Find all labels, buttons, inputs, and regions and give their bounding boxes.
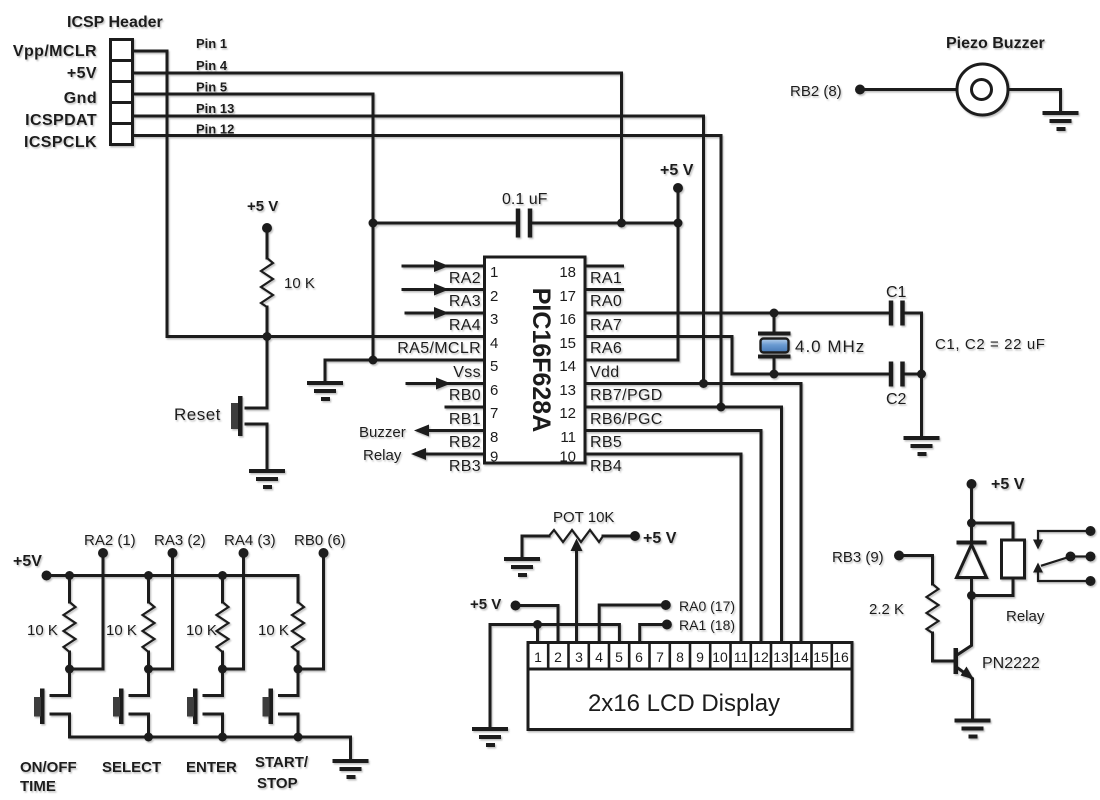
svg-text:STOP: STOP (257, 775, 298, 792)
svg-text:2: 2 (554, 649, 562, 665)
arrowhead emitter (961, 667, 975, 680)
wire RA1 to LCD pin6 (640, 625, 667, 643)
svg-text:ICSPDAT: ICSPDAT (25, 112, 97, 129)
crystal Y1 stub top (773, 313, 776, 333)
terminal dot +5V rail (42, 571, 52, 581)
ground (LCD) (472, 729, 508, 745)
wire RB0 input stub pin6 (407, 382, 485, 385)
junction dot rail R2 (144, 571, 153, 580)
relay pole arm (1042, 557, 1071, 566)
relay contact NO terminal dot (1086, 576, 1096, 586)
buzzer BZ1 body (957, 64, 1008, 115)
ground (buttons) (333, 761, 369, 777)
svg-text:Relay: Relay (1006, 608, 1045, 625)
svg-text:17: 17 (559, 288, 576, 305)
LCD module main body (528, 669, 852, 730)
ground (oscillator caps) (904, 438, 940, 454)
svg-text:11: 11 (560, 429, 576, 446)
pushbutton Reset bottom contact (246, 423, 267, 426)
resistor R1 10K pullup (261, 258, 273, 307)
svg-text:PN2222: PN2222 (982, 655, 1040, 672)
wire RA1 stub pin18 (585, 265, 623, 268)
svg-text:RA4: RA4 (449, 317, 481, 334)
pushbutton SW4 START/STOP (263, 669, 299, 737)
svg-text:+5V: +5V (13, 553, 42, 570)
connector J1 ICSP header (111, 40, 133, 145)
relay K1 coil body (1002, 540, 1025, 578)
terminal dot RA1 (662, 620, 672, 630)
junction dot cap left / ICSP gnd vertical (369, 219, 378, 228)
svg-text:10 K: 10 K (186, 622, 217, 639)
svg-text:4.0 MHz: 4.0 MHz (795, 337, 865, 356)
junction terminal dot +5V top (673, 183, 683, 193)
pushbutton SW3 ENTER (187, 669, 223, 737)
wire RB5 pin11 to LCD pin12 (585, 431, 761, 643)
pin numbers right column 18-10 (559, 264, 576, 466)
wire RA3 input stub pin2 (403, 288, 485, 291)
wire ICSP Pin 12 to RB6/PGC (133, 136, 722, 408)
svg-text:9: 9 (490, 449, 498, 466)
label START/STOP (255, 754, 309, 792)
arrowhead into pin3 (434, 307, 449, 319)
wire junction to LCD pin1 (536, 625, 539, 643)
wire RA4 input stub pin3 (406, 312, 485, 315)
wire RA6 pin15 to crystal/C2 (585, 337, 889, 375)
wire +5V to resistor R1 (266, 228, 269, 258)
svg-text:RA7: RA7 (590, 317, 622, 334)
terminal dot +5V pullup (262, 223, 272, 233)
transistor Q1 base bar (954, 648, 959, 674)
relay contact NC wire with arrow (1033, 531, 1091, 550)
svg-text:RA2: RA2 (449, 270, 481, 287)
svg-text:+5 V: +5 V (247, 198, 278, 215)
wire pot right to +5V (603, 535, 634, 538)
svg-text:POT 10K: POT 10K (553, 509, 614, 526)
svg-text:3: 3 (490, 311, 498, 328)
wire +5V to diode/coil top (970, 484, 973, 523)
relay contact NC terminal dot (1086, 526, 1096, 536)
wire to RA4 terminal (223, 553, 244, 669)
svg-text:15: 15 (813, 649, 829, 665)
svg-text:+5 V: +5 V (470, 596, 501, 613)
junction dot SW4 common (294, 733, 303, 742)
svg-text:12: 12 (559, 405, 576, 422)
junction dot RB6/ICSP (717, 403, 726, 412)
capacitor C1 plates (891, 301, 903, 326)
svg-text:Buzzer: Buzzer (359, 424, 406, 441)
capacitor C (0.1 uF) wire right (532, 222, 678, 225)
wire to RB0 terminal (298, 553, 324, 669)
LCD pin header boxes 1-16 (528, 643, 852, 670)
junction dot R5 bottom (294, 665, 303, 674)
svg-text:3: 3 (575, 649, 583, 665)
pot wiper arrow to LCD pin3 (575, 549, 578, 643)
svg-text:RA0: RA0 (590, 293, 622, 310)
svg-text:PIC16F628A: PIC16F628A (527, 288, 555, 433)
junction dot R2 bottom (65, 665, 74, 674)
junction dot RB7/ICSP (699, 379, 708, 388)
terminal dot RA3 (168, 548, 178, 558)
relay pole terminal dots (1066, 552, 1096, 562)
svg-text:Pin 12: Pin 12 (196, 122, 234, 137)
wire Vdd to chip pin 14 (585, 359, 678, 362)
svg-text:RA1 (18): RA1 (18) (679, 617, 735, 633)
label ON/OFF TIME (20, 759, 77, 795)
wire RB2 buzzer output pin8 (429, 429, 485, 432)
svg-text:8: 8 (490, 429, 498, 446)
svg-text:13: 13 (559, 382, 576, 399)
svg-text:RA6: RA6 (590, 340, 622, 357)
wire RA7 pin16 to C1 (585, 312, 889, 315)
terminal dot +5V relay (967, 479, 977, 489)
svg-text:RB4: RB4 (590, 458, 622, 475)
svg-text:16: 16 (559, 311, 576, 328)
svg-text:RA3: RA3 (449, 293, 481, 310)
junction dot SW3 common (218, 733, 227, 742)
svg-text:6: 6 (490, 382, 498, 399)
arrowhead into pin2 (434, 284, 449, 296)
svg-text:14: 14 (559, 358, 576, 375)
ground (emitter) (955, 721, 991, 737)
svg-text:RB3: RB3 (449, 458, 481, 475)
pushbutton Reset actuator bar (238, 396, 243, 436)
crystal Y1 top plate (758, 332, 791, 336)
svg-text:+5 V: +5 V (660, 162, 694, 179)
wire RA0 stub pin17 (585, 288, 623, 291)
svg-text:RB2 (8): RB2 (8) (790, 83, 842, 100)
junction dot cap at Pin4 vertical (617, 219, 626, 228)
svg-text:RA3 (2): RA3 (2) (154, 532, 206, 549)
capacitor C2 plates (891, 362, 903, 387)
terminal dot RA0 (661, 600, 671, 610)
pin numbers left column 1-9 (490, 264, 498, 466)
wire reset switch to ground (266, 424, 269, 470)
svg-text:8: 8 (676, 649, 684, 665)
LCD pin numbers 1-16 (534, 649, 849, 665)
resistor R6 2.2K (927, 584, 939, 633)
wire RB1 stub pin7 (446, 406, 485, 409)
svg-text:SELECT: SELECT (102, 759, 161, 776)
terminal dot +5V LCD (511, 601, 521, 611)
terminal dot RB2 (855, 85, 865, 95)
relay K1 coil wires (972, 523, 1014, 540)
resistor R4 10K (ENTER) (217, 576, 229, 670)
wire buttons common to ground (70, 737, 351, 760)
junction dot C2/vertical (917, 370, 926, 379)
svg-text:RA0 (17): RA0 (17) (679, 598, 735, 614)
junction dot SW2 common (144, 733, 153, 742)
ground (pot) (504, 559, 540, 575)
wire pot left to ground (522, 536, 549, 558)
wire LCD ground net (pins 1 and 5) (490, 625, 619, 729)
resistor R5 10K (START/STOP) (292, 576, 304, 670)
ground (reset) (249, 471, 285, 487)
svg-text:TIME: TIME (20, 778, 56, 795)
svg-text:Relay: Relay (363, 447, 402, 464)
resistor R2 10K (ON/OFF) (64, 576, 76, 670)
svg-text:RB6/PGC: RB6/PGC (590, 411, 663, 428)
junction dot Vss / ICSP gnd (369, 356, 378, 365)
crystal Y1 body (blue) (761, 339, 789, 353)
svg-text:7: 7 (656, 649, 664, 665)
svg-text:RB3 (9): RB3 (9) (832, 549, 884, 566)
potentiometer POT 10K body (549, 530, 603, 542)
svg-text:RB7/PGD: RB7/PGD (590, 387, 663, 404)
relay contact NO wire with arrow (1033, 563, 1091, 582)
ground (Vss) (307, 383, 343, 399)
diode D1 body (957, 523, 987, 596)
wire +5V down to Vdd (677, 188, 680, 360)
wire R1 to MCLR line (266, 307, 269, 337)
wire RA2 input stub pin1 (403, 265, 485, 268)
wire ICSP Pin 1 to RA5/MCLR (133, 51, 168, 337)
svg-text:Vpp/MCLR: Vpp/MCLR (13, 43, 97, 60)
svg-text:+5 V: +5 V (991, 476, 1025, 493)
junction dot rail R1 (65, 571, 74, 580)
svg-text:RA2 (1): RA2 (1) (84, 532, 136, 549)
wire RA5/MCLR pin4 (167, 335, 485, 338)
op-amp/IC U1 PIC16F628A body (485, 257, 586, 463)
svg-text:10 K: 10 K (106, 622, 137, 639)
junction dot crystal bottom (770, 370, 779, 379)
svg-text:RB0 (6): RB0 (6) (294, 532, 346, 549)
svg-text:14: 14 (793, 649, 809, 665)
svg-text:13: 13 (773, 649, 789, 665)
junction dot rail R3 (218, 571, 227, 580)
svg-text:RB2: RB2 (449, 434, 481, 451)
arrowhead wiper (571, 539, 583, 552)
pushbutton SW1 ON/OFF TIME (34, 669, 70, 737)
svg-text:Vss: Vss (453, 364, 481, 381)
junction dot coil bottom / collector (967, 591, 976, 600)
svg-text:1: 1 (534, 649, 542, 665)
svg-text:5: 5 (490, 358, 498, 375)
wire ICSP Pin 13 to RB7/PGD (133, 116, 704, 384)
capacitor C (0.1 uF) wire left (373, 222, 516, 225)
diode D1 cathode bar (957, 541, 987, 545)
capacitor C (0.1 uF) plates (518, 209, 530, 238)
svg-text:Piezo Buzzer: Piezo Buzzer (946, 35, 1045, 52)
wire buzzer to ground (1008, 90, 1061, 113)
svg-text:9: 9 (696, 649, 704, 665)
terminal dot RA2 (98, 548, 108, 558)
pushbutton SW2 SELECT (113, 669, 149, 737)
svg-text:10 K: 10 K (27, 622, 58, 639)
wire +5V rail (47, 574, 299, 577)
svg-text:11: 11 (734, 649, 749, 665)
wire RB3 relay output pin9 (426, 453, 485, 456)
svg-text:1: 1 (490, 264, 498, 281)
ground (buzzer) (1043, 113, 1079, 129)
junction dot R1/MCLR (263, 332, 272, 341)
svg-text:C1: C1 (886, 284, 907, 301)
svg-text:ICSPCLK: ICSPCLK (24, 134, 97, 151)
wire Vss pin5 to ground (325, 360, 485, 382)
wire ICSP Pin 4 (+5V) (133, 73, 622, 223)
junction dot coil top (967, 519, 976, 528)
svg-text:0.1 uF: 0.1 uF (502, 191, 548, 208)
transistor Q1 emitter lead (957, 668, 973, 720)
svg-text:Pin 4: Pin 4 (196, 58, 228, 73)
junction dot R3 bottom (144, 665, 153, 674)
wire RB4 pin10 to LCD pin11 (585, 454, 741, 643)
svg-text:10 K: 10 K (258, 622, 289, 639)
wire MCLR junction down to reset switch (266, 337, 269, 409)
terminal dot RB3 (894, 551, 904, 561)
wire RB6/PGC pin12 to LCD pin13 (585, 407, 782, 643)
wire to RA3 terminal (149, 553, 173, 669)
arrowhead out pin8 (414, 425, 429, 437)
wire +5V to LCD pin2 (516, 606, 559, 643)
svg-text:16: 16 (833, 649, 849, 665)
wire RA0 to LCD pin4 (599, 605, 666, 643)
wire ICSP Pin 5 (Gnd) to Vss (133, 94, 374, 360)
wire R6 to transistor base (933, 633, 954, 661)
transistor Q1 collector lead (957, 596, 972, 656)
wire vertical to ground (920, 374, 923, 437)
pushbutton Reset cap (231, 403, 238, 429)
svg-text:ON/OFF: ON/OFF (20, 759, 77, 776)
svg-text:4: 4 (490, 335, 498, 352)
svg-text:10 K: 10 K (284, 275, 315, 292)
svg-text:+5V: +5V (67, 65, 97, 82)
svg-text:Pin 13: Pin 13 (196, 101, 234, 116)
wire RB3 to base resistor (899, 556, 933, 585)
svg-text:ENTER: ENTER (186, 759, 237, 776)
relay K1 coil bottom wire (972, 578, 1014, 596)
svg-text:18: 18 (559, 264, 576, 281)
svg-text:2x16 LCD Display: 2x16 LCD Display (588, 690, 780, 717)
svg-text:2.2 K: 2.2 K (869, 601, 904, 618)
arrowhead into pin1 (434, 260, 449, 272)
svg-text:RB0: RB0 (449, 387, 481, 404)
svg-text:Vdd: Vdd (590, 364, 620, 381)
terminal dot +5V pot (630, 531, 640, 541)
arrowhead out pin9 (411, 448, 426, 460)
svg-text:Gnd: Gnd (64, 90, 97, 107)
wire C1 right to vertical (905, 313, 922, 374)
svg-text:START/: START/ (255, 754, 309, 771)
svg-text:Pin 1: Pin 1 (196, 36, 227, 51)
junction dot crystal top (770, 309, 779, 318)
wire to RA2 terminal (70, 553, 104, 669)
svg-text:RA5/MCLR: RA5/MCLR (397, 340, 481, 357)
junction dot LCD pin1 gnd (533, 620, 542, 629)
svg-text:C1, C2 = 22 uF: C1, C2 = 22 uF (935, 336, 1046, 353)
svg-text:12: 12 (753, 649, 769, 665)
resistor R3 10K (SELECT) (143, 576, 155, 670)
svg-text:RB5: RB5 (590, 434, 622, 451)
svg-text:15: 15 (559, 335, 576, 352)
svg-text:10: 10 (559, 449, 576, 466)
wire RB2 to buzzer (860, 88, 957, 91)
pushbutton Reset top contact (246, 407, 267, 410)
svg-text:2: 2 (490, 288, 498, 305)
wire RB7/PGD pin13 to LCD pin14 (585, 384, 801, 643)
svg-text:4: 4 (595, 649, 603, 665)
svg-text:Pin 5: Pin 5 (196, 80, 227, 95)
terminal dot RB0 (319, 548, 329, 558)
crystal Y1 bottom plate (758, 355, 791, 359)
svg-text:7: 7 (490, 405, 498, 422)
junction dot R4 bottom (218, 665, 227, 674)
svg-text:C2: C2 (886, 391, 907, 408)
svg-text:6: 6 (635, 649, 643, 665)
wire C2 right to vertical (905, 373, 922, 376)
junction dot cap at +5V vertical (674, 219, 683, 228)
svg-text:RA4 (3): RA4 (3) (224, 532, 276, 549)
svg-text:10: 10 (712, 649, 728, 665)
crystal Y1 stub bottom (773, 357, 776, 374)
arrowhead into pin6 (436, 378, 451, 390)
svg-text:RB1: RB1 (449, 411, 481, 428)
svg-text:RA1: RA1 (590, 270, 622, 287)
svg-text:5: 5 (615, 649, 623, 665)
svg-text:Reset: Reset (174, 405, 221, 424)
svg-text:+5 V: +5 V (643, 530, 677, 547)
svg-text:ICSP Header: ICSP Header (67, 14, 163, 31)
terminal dot RA4 (239, 548, 249, 558)
